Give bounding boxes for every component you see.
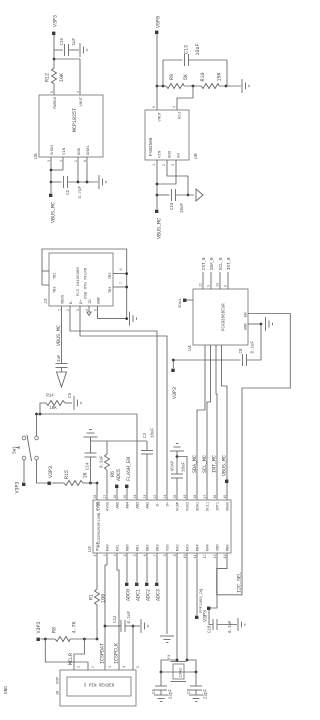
svg-text:22pF: 22pF (205, 688, 209, 699)
svg-text:3: 3 (113, 554, 117, 556)
svg-text:9: 9 (225, 285, 229, 287)
capacitor C12 (105, 625, 121, 627)
capacitor C9 (195, 672, 197, 686)
svg-text:J8: J8 (57, 690, 61, 695)
svg-text:2: 2 (163, 164, 167, 166)
svg-text:VCAP: VCAP (177, 501, 181, 511)
wire GND (77, 157, 79, 182)
svg-text:VBUS_MC: VBUS_MC (222, 455, 228, 476)
wire reader pin5 gnd (132, 626, 134, 670)
svg-text:PPF2450_DQ: PPF2450_DQ (200, 588, 204, 613)
svg-text:C12: C12 (114, 615, 118, 623)
wire AN3 to SW rail (136, 414, 138, 500)
wire (51, 169, 63, 171)
svg-text:C5: C5 (69, 392, 73, 398)
svg-text:5K: 5K (183, 74, 189, 80)
wire AN4 flag (126, 486, 128, 500)
svg-text:RA3: RA3 (187, 544, 191, 552)
svg-text:SCL_B: SCL_B (220, 257, 224, 270)
junction (50, 169, 53, 172)
ground (160, 635, 174, 637)
capacitor C6 (160, 672, 162, 686)
wire ADC3 (156, 553, 158, 582)
resistor R12 (52, 68, 57, 84)
wire ADC0 (126, 553, 128, 582)
svg-text:U5: U5 (33, 153, 39, 159)
svg-text:FCI 10105988: FCI 10105988 (77, 267, 81, 296)
wire divider (157, 85, 166, 87)
svg-text:RB0: RB0 (127, 544, 131, 552)
svg-text:2: 2 (103, 554, 107, 556)
svg-text:AN4: AN4 (127, 501, 131, 509)
svg-text:ICSPCLK: ICSPCLK (114, 643, 120, 664)
capacitor C3 (146, 454, 148, 500)
junction (156, 194, 159, 197)
svg-text:ADC2: ADC2 (146, 589, 152, 601)
svg-text:4: 4 (123, 554, 127, 556)
svg-text:SDA_MC: SDA_MC (192, 455, 198, 473)
MCU U3 PIC32MX250F128B (93, 500, 231, 553)
svg-text:VOUT: VOUT (159, 111, 163, 121)
svg-text:R12: R12 (45, 73, 51, 82)
wire I2C_SEL long route (217, 314, 291, 595)
wire ICSPDAT (105, 553, 107, 670)
wire shield tabs top (42, 270, 49, 272)
junction (96, 482, 99, 485)
wire RB4 flag (196, 553, 198, 615)
junction (96, 638, 99, 641)
svg-text:0.1uF: 0.1uF (101, 455, 105, 468)
svg-text:VIN: VIN (63, 147, 67, 155)
svg-text:1: 1 (153, 164, 157, 166)
wire GND (167, 160, 188, 195)
svg-text:21: 21 (163, 495, 167, 499)
wire rail SW (37, 413, 138, 415)
svg-text:14: 14 (223, 554, 227, 558)
svg-text:22pF: 22pF (170, 688, 174, 699)
svg-text:1: 1 (77, 666, 81, 668)
wire ICSPCLK (117, 553, 119, 670)
junction (187, 194, 190, 197)
svg-text:ADJ: ADJ (179, 112, 183, 119)
svg-text:C18: C18 (209, 625, 213, 633)
wire SDA_MC U3 to U4 (197, 345, 205, 500)
wire GND pin5 (98, 306, 127, 319)
wire EN (157, 160, 176, 184)
svg-text:10K: 10K (49, 407, 57, 411)
svg-text:V3P3: V3P3 (48, 466, 54, 478)
svg-text:U3: U3 (87, 546, 93, 552)
svg-text:12: 12 (200, 283, 204, 287)
ground (129, 312, 131, 326)
svg-text:ID: ID (89, 299, 93, 304)
resistor R1 (95, 589, 100, 605)
wire VSS2 (177, 457, 187, 501)
svg-text:J2: J2 (43, 298, 49, 304)
wire to V5P0 (156, 32, 158, 86)
svg-text:10K: 10K (59, 73, 65, 82)
svg-text:C8: C8 (240, 348, 244, 354)
svg-text:RB1: RB1 (137, 544, 141, 552)
wire VBUS_MC (222, 345, 228, 500)
wire OSC2 RA3 (186, 553, 188, 660)
resistor R8 (55, 637, 70, 642)
svg-text:8: 8 (163, 554, 167, 556)
wire AN5 flag (116, 486, 118, 500)
svg-text:C10: C10 (171, 202, 175, 210)
svg-text:V3P3: V3P3 (36, 621, 42, 633)
svg-text:22: 22 (153, 495, 157, 499)
wire OSC1 RA2 (176, 553, 178, 662)
svg-text:I2C_SEL: I2C_SEL (237, 572, 243, 593)
svg-text:Y1: Y1 (168, 654, 172, 659)
wire SHDN (50, 157, 52, 182)
resistor R14 (40, 403, 46, 414)
svg-text:GND: GND (98, 296, 102, 304)
svg-text:C14: C14 (87, 462, 91, 470)
svg-text:7: 7 (120, 282, 124, 284)
svg-text:MCLR: MCLR (68, 653, 74, 665)
svg-text:MCP1825T: MCP1825T (72, 108, 78, 132)
junction (125, 317, 128, 320)
svg-text:D-: D- (157, 502, 161, 507)
svg-text:TB3: TB3 (109, 273, 113, 279)
level shifter U4 (193, 289, 248, 345)
svg-text:1K: 1K (83, 472, 89, 478)
svg-text:SCL_MC: SCL_MC (202, 455, 208, 473)
svg-text:AN5: AN5 (117, 501, 121, 509)
svg-text:EN: EN (245, 312, 249, 317)
junction (125, 286, 128, 289)
svg-text:C16: C16 (61, 37, 65, 45)
svg-text:25: 25 (123, 495, 127, 499)
svg-text:13: 13 (217, 283, 221, 287)
net V3P3 rail (173, 359, 240, 361)
wire to V3P3 (53, 33, 55, 59)
svg-text:28: 28 (93, 495, 97, 499)
resistor R10 (201, 84, 219, 89)
wire D- to U3 (70, 306, 157, 500)
net V3P3 (207, 607, 210, 610)
junction (225, 85, 228, 88)
svg-text:VSS2: VSS2 (187, 501, 191, 511)
svg-text:VCAP: VCAP (172, 460, 176, 471)
svg-text:EN: EN (178, 153, 182, 158)
svg-text:RB4: RB4 (197, 544, 201, 552)
capacitor C18 (212, 619, 214, 630)
junction (162, 85, 165, 88)
svg-text:ICSPDAT: ICSPDAT (100, 643, 106, 664)
wire ID stub (88, 306, 90, 312)
wire xtal jog left (161, 660, 177, 672)
svg-text:PCA9306DCUR: PCA9306DCUR (223, 303, 227, 331)
junction (125, 272, 128, 275)
wire PWRGD (53, 84, 55, 95)
wire U4 B-side pins (202, 272, 204, 289)
ground (176, 451, 178, 457)
capacitor C10 (157, 194, 170, 196)
capacitor C8 (242, 354, 244, 366)
regulator U5 MCP1825T (39, 95, 103, 157)
svg-text:ADC1: ADC1 (136, 589, 142, 601)
net V5P0 (155, 31, 158, 34)
svg-text:V5P0: V5P0 (156, 16, 162, 28)
svg-text:VBUS: VBUS (62, 294, 66, 304)
svg-text:V3P3: V3P3 (172, 387, 178, 399)
capacitor C16 (54, 49, 63, 51)
svg-text:12: 12 (203, 554, 207, 558)
svg-text:USB OTG MICRO: USB OTG MICRO (85, 267, 89, 299)
svg-text:100: 100 (101, 594, 107, 603)
wire (219, 85, 241, 87)
svg-text:15K: 15K (217, 72, 223, 81)
svg-text:10: 10 (183, 554, 187, 558)
svg-text:6: 6 (120, 268, 124, 270)
svg-text:AVSS: AVSS (107, 501, 111, 511)
junction (77, 181, 80, 184)
connector J8 5 PIN READER (60, 670, 136, 706)
svg-text:10uF: 10uF (152, 427, 156, 438)
svg-text:C3: C3 (144, 432, 148, 438)
svg-text:D-: D- (70, 299, 74, 304)
ground (79, 43, 81, 57)
svg-text:U8: U8 (193, 153, 199, 159)
ground (140, 619, 142, 633)
svg-text:CNT_B: CNT_B (203, 257, 207, 270)
svg-text:R15: R15 (64, 470, 70, 479)
svg-text:VBUS_MC: VBUS_MC (51, 202, 57, 223)
svg-text:U4: U4 (187, 345, 193, 351)
ground rail (91, 440, 148, 442)
svg-text:R10: R10 (200, 72, 206, 81)
svg-text:0.1uF: 0.1uF (128, 610, 132, 623)
svg-text:26: 26 (113, 495, 117, 499)
ground (189, 694, 203, 696)
svg-text:SCL1: SCL1 (207, 501, 211, 511)
wire ADJ (177, 86, 193, 110)
svg-text:ADC0: ADC0 (126, 589, 132, 601)
svg-text:15: 15 (223, 495, 227, 499)
svg-text:FAN2500: FAN2500 (149, 137, 154, 156)
svg-text:RA4: RA4 (207, 544, 211, 552)
ground earth arrow (57, 372, 67, 387)
svg-text:4.7K: 4.7K (72, 621, 78, 633)
wire MCLR left (96, 553, 98, 589)
svg-text:SDA1: SDA1 (197, 501, 201, 511)
svg-text:4.7uF: 4.7uF (79, 186, 83, 199)
svg-text:SHDN: SHDN (51, 145, 55, 155)
svg-text:PWRGD: PWRGD (54, 96, 58, 109)
svg-text:DNP: DNP (57, 676, 61, 684)
svg-text:5: 5 (153, 106, 157, 108)
junction (156, 183, 159, 186)
wire VSS (166, 553, 168, 634)
wire (184, 85, 201, 87)
ground (90, 437, 92, 441)
connector J2 USB (49, 253, 113, 306)
svg-text:TB1: TB1 (54, 273, 58, 279)
svg-text:VBUS_MC: VBUS_MC (56, 325, 62, 346)
svg-text:C13: C13 (184, 45, 190, 54)
svg-text:1uF: 1uF (58, 354, 62, 362)
svg-text:0.1uF: 0.1uF (252, 340, 256, 353)
svg-text:V3P3: V3P3 (203, 610, 209, 622)
wire AVSS (106, 470, 108, 500)
svg-text:C9: C9 (188, 688, 192, 694)
svg-text:VSS: VSS (167, 544, 171, 552)
svg-text:7: 7 (153, 554, 157, 556)
ground (154, 694, 168, 696)
svg-text:ADC5: ADC5 (116, 469, 122, 481)
svg-text:0.1uF: 0.1uF (229, 620, 233, 633)
svg-text:10uF: 10uF (181, 203, 185, 214)
ground earth arrow (196, 189, 203, 201)
svg-text:1uF: 1uF (73, 37, 77, 45)
svg-text:3: 3 (208, 285, 212, 287)
svg-text:VBUS: VBUS (227, 501, 231, 511)
resistor R9 (166, 84, 184, 89)
svg-text:SDA1: SDA1 (179, 298, 183, 308)
wire link (161, 671, 196, 673)
svg-text:R8: R8 (52, 627, 58, 633)
svg-text:RB2: RB2 (147, 544, 151, 552)
net V3P3 (48, 482, 51, 485)
svg-text:24: 24 (133, 495, 137, 499)
svg-text:RB3: RB3 (157, 544, 161, 552)
svg-text:4: 4 (122, 666, 126, 668)
svg-text:AVDD: AVDD (97, 501, 101, 511)
crystal Y1 (171, 661, 187, 663)
regulator U8 FAN2500 (145, 110, 189, 160)
svg-text:19: 19 (183, 495, 187, 499)
junction (50, 181, 53, 184)
wire VDD to C18 (209, 553, 217, 625)
ground (241, 79, 243, 93)
svg-text:ADC3: ADC3 (156, 589, 162, 601)
svg-text:TB4: TB4 (109, 287, 113, 293)
svg-text:GND: GND (4, 686, 9, 694)
junction (86, 181, 89, 184)
svg-text:INT_MC: INT_MC (212, 455, 218, 473)
resistor R15 (52, 482, 65, 484)
svg-text:C2: C2 (67, 190, 71, 196)
svg-text:C6: C6 (153, 688, 157, 694)
wire U4 GND (248, 323, 261, 325)
wire ADC2 (146, 553, 148, 582)
capacitor C14 (89, 482, 92, 485)
wire VBUS pin1 (61, 306, 63, 363)
wire R12 to node (53, 59, 55, 68)
svg-text:10uF: 10uF (183, 461, 187, 472)
svg-text:VOUT: VOUT (80, 96, 84, 106)
wire reader pin1 MCLR (74, 639, 84, 670)
svg-text:RA1: RA1 (117, 544, 121, 552)
ground (265, 317, 267, 331)
junction (83, 638, 86, 641)
svg-text:10uF: 10uF (195, 43, 201, 55)
svg-text:R14: R14 (46, 395, 54, 399)
svg-text:RA2: RA2 (177, 544, 181, 552)
svg-text:20: 20 (173, 495, 177, 499)
wire VOUT (79, 59, 81, 95)
svg-text:V3P3: V3P3 (15, 481, 21, 493)
wire SW1 to V3P3 (23, 460, 25, 482)
svg-text:11: 11 (193, 554, 197, 558)
wire D+ to U3 (80, 306, 167, 500)
capacitor C5 (56, 363, 68, 365)
wire to VBUS_MC (50, 182, 52, 193)
svg-text:V3P3: V3P3 (53, 15, 59, 27)
svg-text:D+: D+ (167, 501, 171, 506)
svg-text:5 PIN READER: 5 PIN READER (84, 685, 115, 689)
svg-text:23: 23 (143, 495, 147, 499)
svg-text:2: 2 (91, 666, 95, 668)
svg-text:VBUS_MC: VBUS_MC (157, 218, 163, 239)
svg-text:3: 3 (172, 164, 176, 166)
ground (237, 618, 239, 631)
svg-text:6: 6 (143, 554, 147, 556)
svg-text:TB2: TB2 (54, 287, 58, 293)
svg-text:1: 1 (93, 554, 97, 556)
junction (44, 638, 47, 641)
svg-text:9: 9 (173, 554, 177, 556)
capacitor C13 (162, 60, 164, 86)
svg-text:INT1: INT1 (217, 501, 221, 511)
wire reader pin2 to V3P3 (45, 639, 88, 670)
wire INT_MC (216, 345, 217, 500)
wire SCL_MC (207, 345, 211, 500)
svg-text:16: 16 (213, 495, 217, 499)
wire SW1 to R15 node (37, 460, 48, 483)
svg-text:AN2: AN2 (147, 501, 151, 509)
wire shield tabs bottom (113, 273, 127, 275)
svg-text:4: 4 (173, 106, 177, 108)
svg-text:GND: GND (169, 150, 173, 158)
svg-text:SDA_B: SDA_B (211, 257, 215, 270)
svg-text:R9: R9 (169, 74, 175, 80)
junction (260, 323, 263, 326)
svg-text:VIN: VIN (159, 150, 163, 158)
net SDA1 stub (185, 299, 193, 301)
wire MCLR node (96, 483, 98, 500)
capacitor C2 (51, 181, 62, 183)
svg-text:3: 3 (108, 666, 112, 668)
wire GND1 (86, 157, 88, 182)
net VBUS_MC (155, 210, 158, 213)
wire VIN (62, 157, 64, 170)
svg-text:AN3: AN3 (137, 501, 141, 509)
svg-text:SW1: SW1 (13, 446, 18, 454)
svg-text:D+: D+ (80, 299, 84, 304)
svg-text:VDD: VDD (217, 544, 221, 552)
wire SW1 to rail (36, 414, 38, 436)
svg-text:18: 18 (193, 495, 197, 499)
ground (73, 396, 75, 410)
svg-text:27: 27 (103, 495, 107, 499)
junction (192, 85, 195, 88)
svg-text:RB5: RB5 (227, 544, 231, 552)
capacitor C7 VCAP (176, 478, 178, 500)
junction (156, 85, 159, 88)
net V3P3 rail with R8 (37, 638, 40, 641)
resistor R6 (105, 454, 110, 470)
svg-text:5: 5 (133, 554, 137, 556)
svg-text:GND1: GND1 (87, 145, 91, 155)
svg-text:12MHZ: 12MHZ (180, 668, 184, 678)
svg-text:GND: GND (78, 147, 82, 155)
wire VOUT (156, 86, 158, 110)
svg-text:17: 17 (203, 495, 207, 499)
